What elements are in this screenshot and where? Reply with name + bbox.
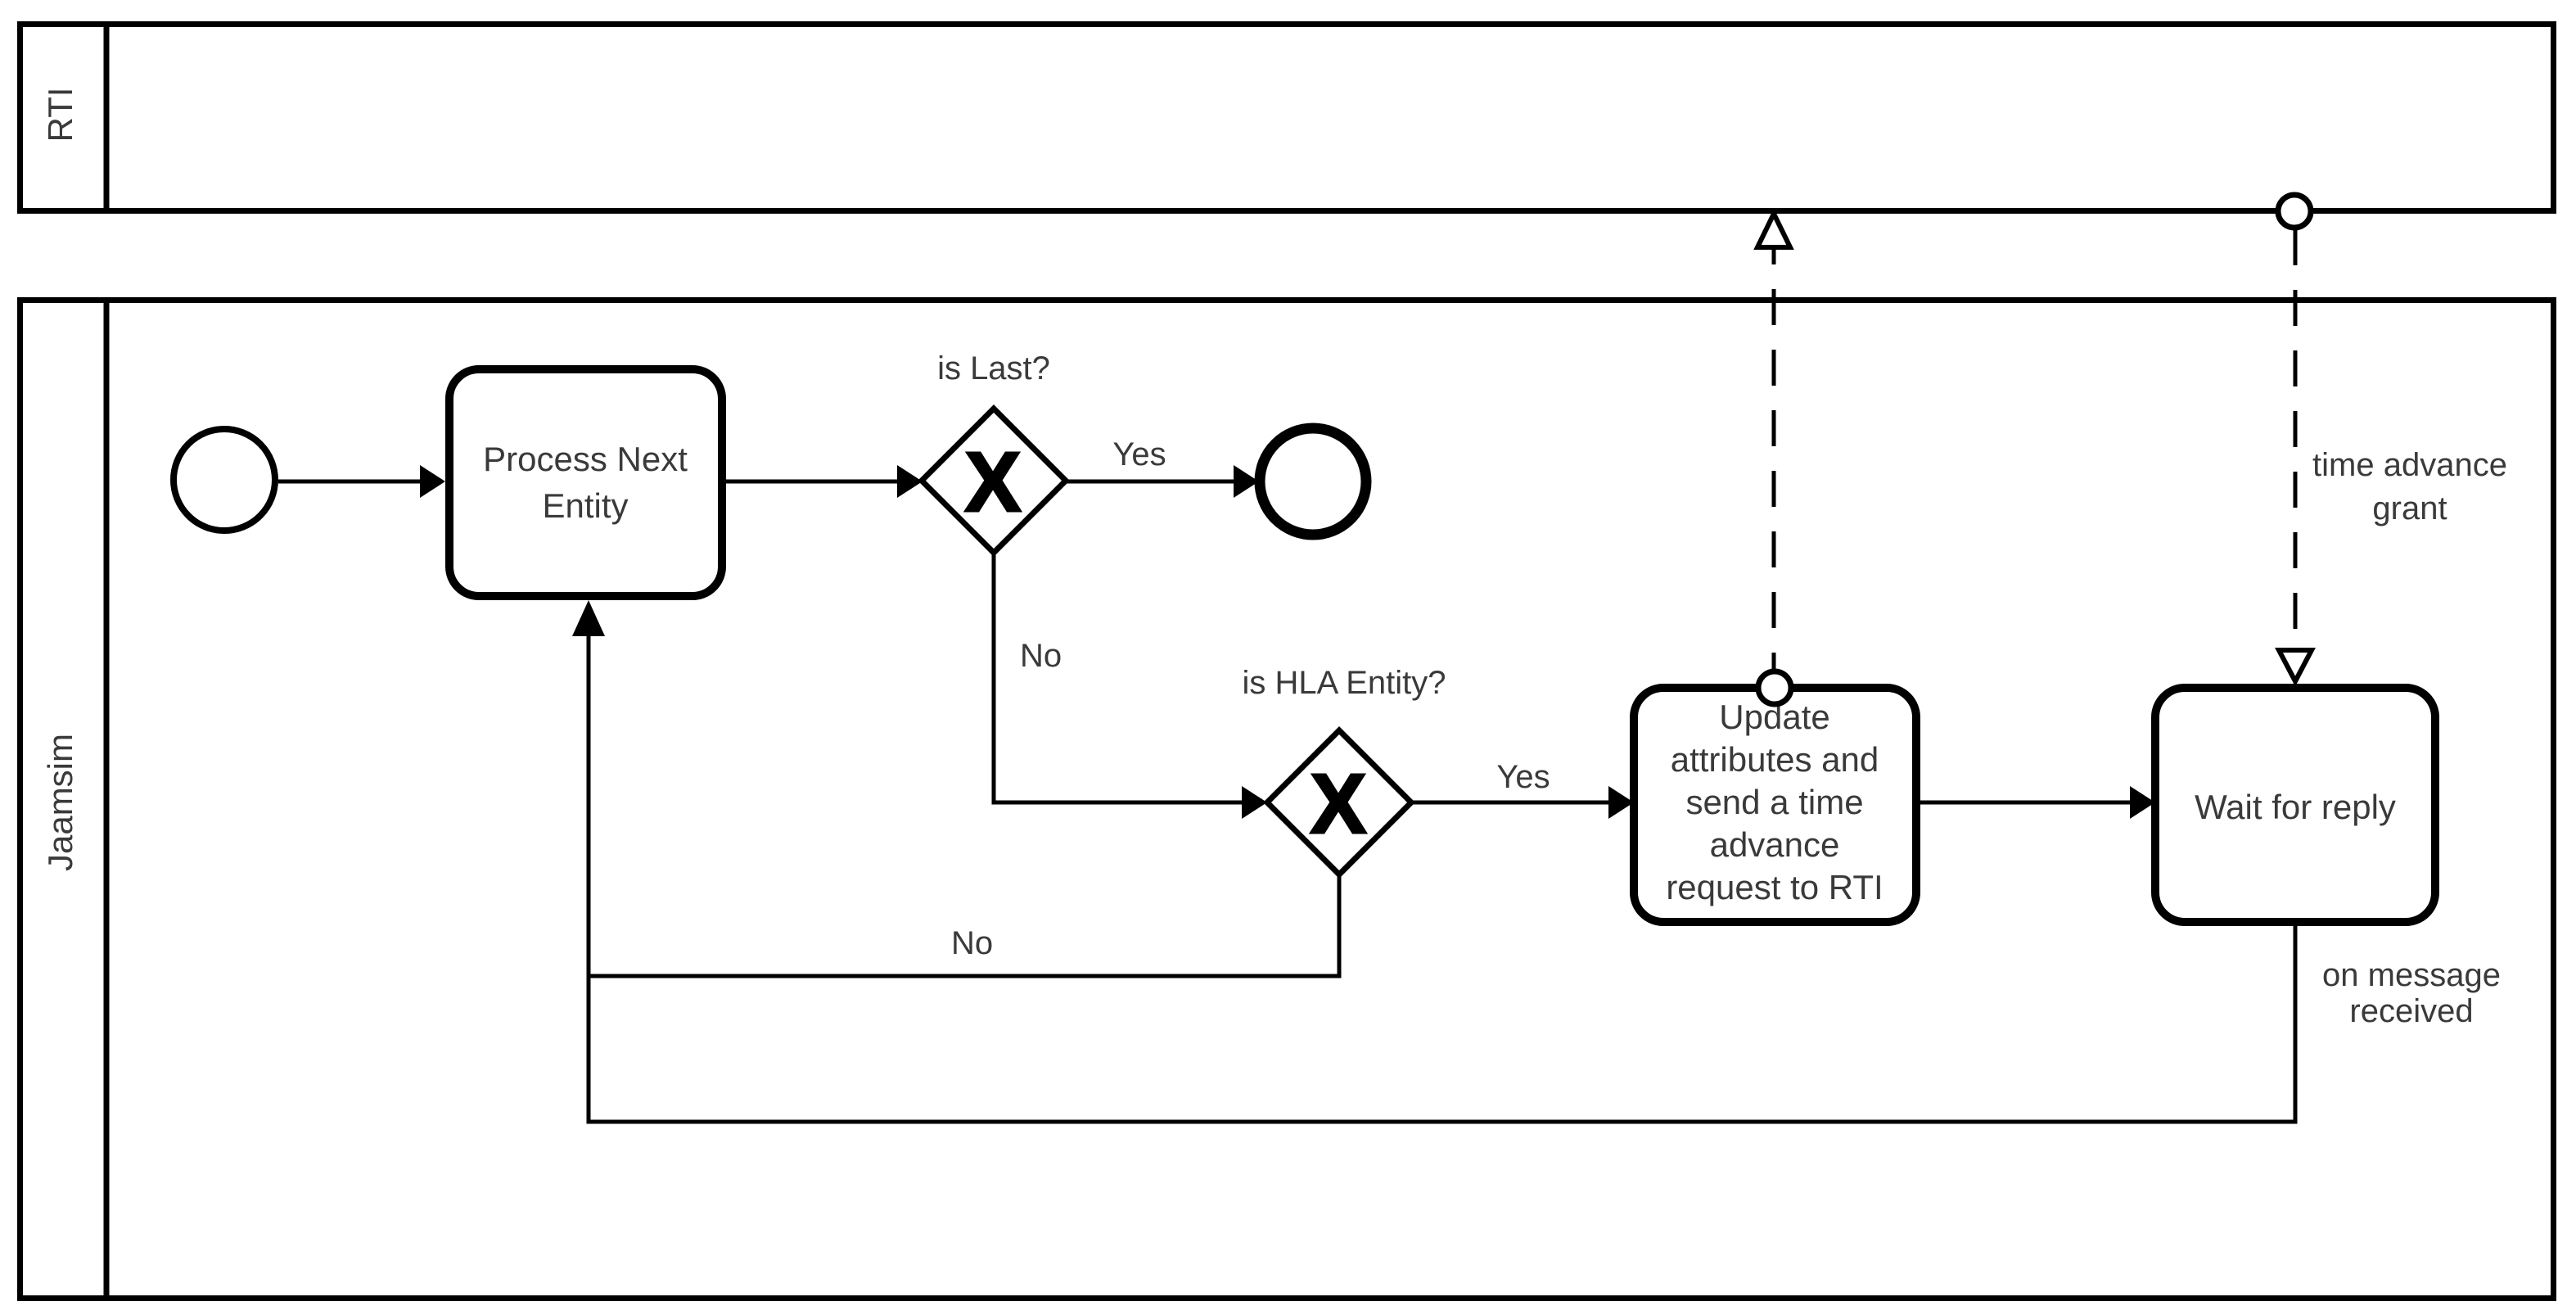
task Update attributes and send a time advance request to RTI bbox=[1634, 688, 1916, 922]
svg-text:X: X bbox=[965, 435, 1022, 529]
svg-text:Process Next: Process Next bbox=[483, 440, 688, 478]
svg-text:Yes: Yes bbox=[1112, 436, 1166, 472]
end event bbox=[1260, 428, 1366, 535]
svg-text:received: received bbox=[2349, 993, 2473, 1029]
svg-text:No: No bbox=[1020, 638, 1062, 674]
svg-text:Wait for reply: Wait for reply bbox=[2195, 788, 2396, 826]
pool RTI bbox=[20, 21, 2554, 211]
svg-text:grant: grant bbox=[2372, 490, 2447, 526]
svg-text:advance: advance bbox=[1710, 825, 1840, 864]
task Process Next Entity bbox=[449, 369, 722, 596]
svg-text:Jaamsim: Jaamsim bbox=[41, 734, 79, 871]
svg-text:RTI: RTI bbox=[41, 88, 79, 142]
sequence flow F8 on message received: Wait for reply down, left, up into Process Next Entity bbox=[572, 600, 2501, 1122]
message flow M1: Update task to RTI (dashed, circle start, open triangle end) bbox=[1757, 214, 1791, 704]
svg-text:is HLA Entity?: is HLA Entity? bbox=[1242, 665, 1446, 701]
sequence flow F4 No: G1 down and right to gateway G2 bbox=[994, 553, 1267, 819]
svg-text:is Last?: is Last? bbox=[937, 350, 1050, 386]
sequence flow F7 No: G2 down, left to loop line bbox=[589, 874, 1339, 976]
sequence flow F5 Yes: G2 to Update task bbox=[1411, 759, 1634, 819]
sequence flow F3 Yes: G1 to end event bbox=[1066, 436, 1259, 498]
svg-text:send a time: send a time bbox=[1685, 783, 1863, 821]
svg-text:attributes and: attributes and bbox=[1671, 740, 1879, 779]
task Wait for reply bbox=[2155, 688, 2435, 922]
gateway G2 is HLA Entity? bbox=[1242, 665, 1446, 874]
message flow M2: RTI to Wait for reply (dashed, circle start, open triangle end) bbox=[2278, 195, 2507, 681]
sequence flow F2: Process Next Entity to gateway G1 bbox=[726, 465, 923, 498]
svg-text:X: X bbox=[1311, 757, 1367, 851]
sequence flow F6: Update task to Wait for reply bbox=[1920, 786, 2155, 819]
svg-text:No: No bbox=[951, 925, 993, 961]
svg-text:Yes: Yes bbox=[1496, 759, 1550, 795]
pool Jaamsim bbox=[20, 297, 2554, 1299]
sequence flow F1: start to Process Next Entity bbox=[278, 465, 445, 498]
svg-text:time advance: time advance bbox=[2312, 447, 2507, 483]
gateway G1 is Last? bbox=[922, 350, 1066, 553]
svg-text:on message: on message bbox=[2322, 957, 2501, 993]
svg-text:request to RTI: request to RTI bbox=[1666, 868, 1883, 906]
start event bbox=[174, 429, 275, 531]
svg-text:Entity: Entity bbox=[542, 486, 628, 525]
